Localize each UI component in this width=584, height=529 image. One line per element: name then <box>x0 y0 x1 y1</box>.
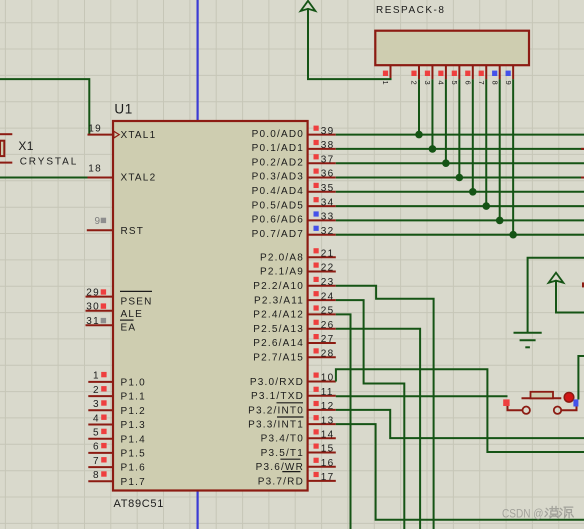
pin 8 P1.7 stub <box>88 480 113 482</box>
pin 28 P2.7 stub <box>308 356 336 358</box>
pin 21 P2.0 stub <box>308 256 336 258</box>
svg-text:P3.3/INT1: P3.3/INT1 <box>248 420 304 431</box>
svg-text:P1.0: P1.0 <box>121 378 146 389</box>
wire: P2.3/A11 net <box>336 300 405 529</box>
svg-text:5: 5 <box>450 81 459 85</box>
ground symbol <box>514 333 542 348</box>
pin 24 P2.3 stub <box>308 299 336 301</box>
pin 11 P3.1 stub <box>308 395 336 397</box>
svg-text:P3.1/TXD: P3.1/TXD <box>251 391 304 402</box>
svg-text:34: 34 <box>321 197 335 208</box>
svg-text:P3.2/INT0: P3.2/INT0 <box>248 405 304 416</box>
junction node P0.0 <box>415 131 423 139</box>
pin state square 15 <box>314 444 319 449</box>
svg-text:37: 37 <box>321 154 335 165</box>
svg-text:21: 21 <box>321 248 335 259</box>
svg-text:P0.5/AD5: P0.5/AD5 <box>252 200 304 211</box>
svg-text:32: 32 <box>321 226 335 237</box>
op-amp-style IC body U1 (AT89C51) <box>113 121 308 491</box>
pin 1 P1.0 stub <box>88 381 113 383</box>
pin 35 P0.4 stub <box>308 191 336 193</box>
pin 12 P3.2 stub <box>308 409 336 411</box>
pin state square 21 <box>314 248 319 253</box>
pin state square 22 <box>314 263 319 268</box>
svg-text:XTAL1: XTAL1 <box>121 130 157 141</box>
pin stub at right edge near VCC <box>582 282 584 287</box>
respack pin 5 stub <box>458 65 460 79</box>
wire: P0.4/AD4 net to right edge <box>336 191 584 193</box>
svg-text:6: 6 <box>93 442 99 453</box>
pin 26 P2.5 stub <box>308 328 336 330</box>
respack pin state square 3 <box>425 71 430 76</box>
svg-text:10: 10 <box>321 373 335 384</box>
pin 17 P3.7 stub <box>308 480 336 482</box>
pin state square 12 <box>314 401 319 406</box>
svg-text:XTAL2: XTAL2 <box>121 173 157 184</box>
pin 30 stub <box>86 310 114 312</box>
svg-text:X1: X1 <box>18 139 33 153</box>
pin label EA with overline <box>120 319 134 321</box>
svg-text:P0.3/AD3: P0.3/AD3 <box>252 172 304 183</box>
respack pin 7 stub <box>485 65 487 79</box>
pin state square 8 <box>101 471 106 476</box>
pin state square 31 <box>101 318 106 323</box>
svg-text:9: 9 <box>94 216 100 227</box>
wire: net from right edge to button terminal <box>578 356 584 400</box>
respack pin 8 stub <box>499 65 501 79</box>
wire: net to XTAL2 from left edge <box>0 177 89 179</box>
svg-text:PSEN: PSEN <box>121 296 153 307</box>
wire: respack pin 8 to P0.6 <box>499 79 501 220</box>
wire: P3.0/RXD net <box>336 369 584 452</box>
junction node P0.7 <box>509 231 517 239</box>
respack pin 9 stub <box>512 65 514 79</box>
pin state square 36 <box>314 169 319 174</box>
svg-text:1: 1 <box>93 371 99 382</box>
wire: P0.1/AD1 net to right edge <box>336 148 584 150</box>
respack pin state square 6 <box>465 71 470 76</box>
wire: P0.2/AD2 net to right edge <box>336 162 584 164</box>
power VCC arrow (top) <box>301 1 316 11</box>
svg-text:7: 7 <box>477 81 486 85</box>
pin label PSEN with overline <box>120 290 152 292</box>
svg-text:P2.2/A10: P2.2/A10 <box>253 281 304 292</box>
pin state square 16 <box>314 458 319 463</box>
svg-text:P2.4/A12: P2.4/A12 <box>253 310 304 321</box>
pin 38 P0.1 stub <box>308 148 336 150</box>
svg-text:P1.5: P1.5 <box>121 449 146 460</box>
wire: blue vertical bus line (top) <box>197 0 199 122</box>
wire: net to XTAL1 from left edge <box>0 79 89 135</box>
pin 31 stub <box>86 324 114 326</box>
svg-text:1: 1 <box>381 81 390 85</box>
svg-text:17: 17 <box>321 472 335 483</box>
svg-text:P0.6/AD6: P0.6/AD6 <box>252 215 304 226</box>
respack pin state square 4 <box>438 71 443 76</box>
pin stub at right edge (AD3 row) <box>581 177 584 179</box>
pin 27 P2.6 stub <box>308 342 336 344</box>
svg-text:P2.6/A14: P2.6/A14 <box>253 338 304 349</box>
push button switch <box>503 392 578 414</box>
respack pin state square 5 <box>452 71 457 76</box>
overbar WR <box>280 458 300 460</box>
svg-text:P3.7/RD: P3.7/RD <box>258 476 304 487</box>
svg-text:39: 39 <box>321 126 335 137</box>
svg-text:P3.4/T0: P3.4/T0 <box>261 434 304 445</box>
respack pin state square 1 <box>383 71 388 76</box>
pin 15 P3.5 stub <box>308 452 336 454</box>
wire: P0.6/AD6 net to right edge <box>336 219 584 221</box>
svg-text:P1.2: P1.2 <box>121 406 146 417</box>
pin 4 P1.3 stub <box>88 424 113 426</box>
svg-text:U1: U1 <box>114 102 132 117</box>
pin state square 10 <box>314 373 319 378</box>
svg-text:2: 2 <box>410 81 419 85</box>
svg-text:33: 33 <box>321 212 335 223</box>
pin 6 P1.5 stub <box>88 452 113 454</box>
respack pin state square 2 <box>411 71 416 76</box>
pin state square 28 <box>314 348 319 353</box>
svg-text:28: 28 <box>321 349 335 360</box>
respack pin state square 8 <box>492 71 497 76</box>
wire: VCC to respack pin 1 <box>308 9 391 79</box>
pin state square 11 <box>314 387 319 392</box>
wire: P2.2/A10 net <box>336 286 434 529</box>
svg-text:CSDN @: CSDN @ <box>502 506 544 520</box>
svg-text:30: 30 <box>86 302 100 313</box>
respack pin 2 stub <box>418 65 420 79</box>
svg-text:22: 22 <box>321 263 335 274</box>
svg-text:13: 13 <box>321 415 335 426</box>
svg-text:19: 19 <box>88 123 102 134</box>
junction node P0.6 <box>496 217 504 225</box>
pin state square 33 <box>314 211 319 216</box>
pin 36 P0.3 stub <box>308 177 336 179</box>
respack pin 3 stub <box>431 65 433 79</box>
respack pin 1 stub <box>390 65 392 79</box>
svg-text:38: 38 <box>321 140 335 151</box>
svg-text:24: 24 <box>321 291 335 302</box>
wire: P2.5/A13 net <box>336 329 420 529</box>
overbar TXD/INT0 <box>277 402 304 404</box>
svg-text:P0.7/AD7: P0.7/AD7 <box>252 229 304 240</box>
pin 16 P3.6 stub <box>308 466 336 468</box>
wire: VCC right to edge <box>556 281 584 313</box>
svg-text:31: 31 <box>86 316 100 327</box>
svg-text:16: 16 <box>321 458 335 469</box>
crystal X1 <box>0 134 12 162</box>
svg-text:18: 18 <box>88 164 102 175</box>
pin state square 26 <box>314 320 319 325</box>
svg-text:P0.1/AD1: P0.1/AD1 <box>252 143 304 154</box>
pin 23 P2.2 stub <box>308 285 336 287</box>
svg-text:8: 8 <box>490 81 499 85</box>
wire: P3.3/INT1 net <box>336 424 584 520</box>
pin 9 RST stub <box>87 229 113 231</box>
svg-text:P1.6: P1.6 <box>121 463 146 474</box>
svg-text:P1.3: P1.3 <box>121 420 146 431</box>
junction node P0.3 <box>456 174 464 182</box>
wire: P0.7/AD7 net to right edge <box>336 234 584 236</box>
svg-text:P1.1: P1.1 <box>121 392 146 403</box>
wire: respack pin 6 to P0.4 <box>472 79 474 192</box>
pin 5 P1.4 stub <box>88 438 113 440</box>
pin state square 6 <box>101 443 106 448</box>
svg-text:27: 27 <box>321 334 335 345</box>
wire: respack pin 4 to P0.2 <box>445 79 447 163</box>
pin state square 29 <box>101 289 106 294</box>
svg-text:RST: RST <box>121 226 145 237</box>
pin state square 30 <box>101 303 106 308</box>
pin stub at right edge (AD1 row) <box>581 148 584 150</box>
wire: P2.4/A12 net <box>336 314 351 529</box>
svg-text:26: 26 <box>321 320 335 331</box>
pin 22 P2.1 stub <box>308 271 336 273</box>
svg-text:P2.7/A15: P2.7/A15 <box>253 353 304 364</box>
overbar RD <box>282 471 300 473</box>
svg-text:4: 4 <box>93 413 99 424</box>
pin state square 35 <box>314 183 319 188</box>
pin state square 27 <box>314 334 319 339</box>
pin 10 P3.0 stub <box>308 381 336 383</box>
pin state square 34 <box>314 197 319 202</box>
wire: respack pin 9 to P0.7 <box>512 79 514 234</box>
pin state square 25 <box>314 305 319 310</box>
wire: P3.1/TXD net to button <box>336 395 508 397</box>
svg-text:15: 15 <box>321 444 335 455</box>
wire: respack pin 3 to P0.1 <box>431 79 433 149</box>
svg-text:P2.3/A11: P2.3/A11 <box>254 295 304 306</box>
junction node P0.5 <box>482 202 490 210</box>
wire: P0.3/AD3 net to right edge <box>336 177 584 179</box>
wire: net from right edge to ground <box>528 258 584 333</box>
svg-text:RESPACK-8: RESPACK-8 <box>376 5 445 16</box>
pin state square 23 <box>314 277 319 282</box>
svg-text:P2.1/A9: P2.1/A9 <box>260 267 304 278</box>
pin state square 4 <box>101 415 106 420</box>
svg-text:5: 5 <box>93 428 99 439</box>
svg-text:7: 7 <box>93 456 99 467</box>
svg-text:3: 3 <box>93 399 99 410</box>
pin label XTAL1 with clock arrow <box>114 131 119 138</box>
pin 2 P1.1 stub <box>88 395 113 397</box>
respack pin state square 9 <box>506 71 511 76</box>
svg-text:AT89C51: AT89C51 <box>114 498 165 510</box>
svg-text:3: 3 <box>423 81 432 85</box>
pin state square 37 <box>314 154 319 159</box>
wire: P0.0/AD0 net to right edge <box>336 134 584 136</box>
pin 18 XTAL2 stub <box>88 177 114 179</box>
pin state square 7 <box>101 457 106 462</box>
wire: respack pin 2 to P0.0 <box>418 79 420 134</box>
wire: P0.5/AD5 net to right edge <box>336 205 584 207</box>
pin state square 2 <box>101 386 106 391</box>
junction node P0.1 <box>429 145 437 153</box>
pin state square 1 <box>101 372 106 377</box>
svg-text:ALE: ALE <box>121 309 144 320</box>
pin state square 9 <box>101 218 106 223</box>
pin 34 P0.5 stub <box>308 205 336 207</box>
svg-text:P2.5/A13: P2.5/A13 <box>253 324 304 335</box>
pin 33 P0.6 stub <box>308 219 336 221</box>
pin state square 32 <box>314 226 319 231</box>
pin state square 5 <box>101 429 106 434</box>
svg-text:P3.5/T1: P3.5/T1 <box>261 448 304 459</box>
respack pin 6 stub <box>472 65 474 79</box>
wire: P3.2/INT0 net <box>336 410 584 438</box>
overbar INT0/INT1 <box>277 416 304 418</box>
resistor pack RP1 RESPACK-8 body <box>375 31 529 65</box>
svg-text:4: 4 <box>437 81 446 85</box>
svg-text:29: 29 <box>86 287 100 298</box>
svg-text:CRYSTAL: CRYSTAL <box>20 156 79 167</box>
pin 13 P3.3 stub <box>308 423 336 425</box>
svg-text:35: 35 <box>321 183 335 194</box>
pin state square 39 <box>314 126 319 131</box>
wire: respack pin 5 to P0.3 <box>458 79 460 177</box>
svg-text:P2.0/A8: P2.0/A8 <box>260 252 304 263</box>
junction node P0.4 <box>469 188 477 196</box>
power VCC arrow (right) <box>549 273 564 283</box>
pin 25 P2.4 stub <box>308 313 336 315</box>
pin 37 P0.2 stub <box>308 162 336 164</box>
svg-text:8: 8 <box>93 470 99 481</box>
pin state square 38 <box>314 140 319 145</box>
pin 7 P1.6 stub <box>88 466 113 468</box>
junction node P0.2 <box>442 159 450 167</box>
svg-text:P3.0/RXD: P3.0/RXD <box>250 377 304 388</box>
pin 29 stub <box>86 296 114 298</box>
svg-text:P0.2/AD2: P0.2/AD2 <box>252 157 304 168</box>
svg-text:23: 23 <box>321 277 335 288</box>
svg-text:12: 12 <box>321 401 335 412</box>
svg-text:9: 9 <box>504 81 513 85</box>
svg-text:EA: EA <box>121 323 137 334</box>
svg-text:P0.0/AD0: P0.0/AD0 <box>252 129 304 140</box>
svg-text:25: 25 <box>321 306 335 317</box>
svg-text:2: 2 <box>93 385 99 396</box>
respack pin 4 stub <box>445 65 447 79</box>
pin state square 17 <box>314 472 319 477</box>
pin 32 P0.7 stub <box>308 234 336 236</box>
svg-text:36: 36 <box>321 169 335 180</box>
wire: blue vertical bus line (bottom) <box>197 490 199 529</box>
svg-text:14: 14 <box>321 430 335 441</box>
svg-text:P1.7: P1.7 <box>121 477 146 488</box>
pin 14 P3.4 stub <box>308 437 336 439</box>
wire: respack pin 7 to P0.5 <box>485 79 487 206</box>
pin state square 13 <box>314 415 319 420</box>
respack pin state square 7 <box>479 71 484 76</box>
svg-text:11: 11 <box>321 387 334 398</box>
pin state square 14 <box>314 429 319 434</box>
pin state square 24 <box>314 291 319 296</box>
pin 3 P1.2 stub <box>88 409 113 411</box>
svg-text:P0.4/AD4: P0.4/AD4 <box>252 186 304 197</box>
pin state square 3 <box>101 400 106 405</box>
pin 39 P0.0 stub <box>308 134 336 136</box>
svg-text:P1.4: P1.4 <box>121 434 146 445</box>
pin 19 XTAL1 stub <box>88 134 114 136</box>
svg-text:6: 6 <box>464 81 473 85</box>
